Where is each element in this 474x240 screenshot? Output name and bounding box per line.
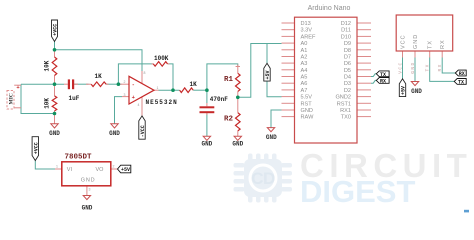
svg-text:D13: D13 [301, 21, 311, 27]
svg-text:TX: TX [380, 72, 386, 78]
svg-text:A0: A0 [301, 41, 308, 47]
svg-text:AREF: AREF [301, 34, 317, 40]
svg-text:TX: TX [428, 40, 434, 49]
svg-text:D6: D6 [344, 61, 351, 67]
svg-text:D3: D3 [344, 81, 351, 87]
svg-text:A7: A7 [301, 88, 308, 94]
svg-text:D9: D9 [344, 41, 351, 47]
svg-text:GND: GND [82, 205, 93, 212]
svg-text:D2: D2 [344, 88, 351, 94]
svg-text:MIC: MIC [9, 93, 15, 104]
svg-text:GND: GND [301, 108, 313, 114]
svg-text:VCC: VCC [397, 61, 403, 73]
svg-text:1: 1 [157, 86, 159, 90]
svg-text:GND: GND [109, 130, 120, 137]
svg-text:GND: GND [201, 141, 212, 148]
svg-text:+5V: +5V [401, 86, 407, 95]
svg-text:1uF: 1uF [69, 95, 80, 102]
svg-text:A5: A5 [301, 75, 308, 81]
svg-text:TX0: TX0 [341, 115, 351, 121]
svg-text:R2: R2 [224, 115, 234, 123]
svg-text:A3: A3 [301, 61, 308, 67]
svg-text:D4: D4 [344, 75, 351, 81]
svg-text:+VCC: +VCC [53, 24, 59, 36]
svg-text:GND: GND [411, 88, 422, 95]
svg-text:5.5V: 5.5V [301, 95, 313, 101]
svg-text:D10: D10 [341, 34, 351, 40]
svg-text:-VCC: -VCC [140, 125, 146, 137]
svg-text:D12: D12 [341, 21, 351, 27]
svg-text:DIGEST: DIGEST [300, 174, 415, 209]
svg-text:NE5532N: NE5532N [146, 99, 178, 106]
svg-text:2: 2 [124, 80, 126, 84]
svg-text:VI: VI [67, 167, 73, 173]
svg-text:TX: TX [425, 63, 431, 71]
svg-text:3: 3 [89, 188, 91, 192]
svg-text:10K: 10K [44, 60, 51, 71]
svg-text:1: 1 [56, 165, 58, 169]
svg-text:2: 2 [113, 165, 115, 169]
svg-text:3: 3 [124, 93, 126, 97]
svg-text:RX: RX [459, 71, 465, 77]
svg-text:VO: VO [96, 167, 105, 173]
svg-text:GND: GND [49, 130, 60, 137]
svg-text:1K: 1K [190, 81, 198, 88]
svg-text:VCC: VCC [401, 34, 407, 49]
svg-text:3.3V: 3.3V [301, 28, 313, 34]
svg-text:4: 4 [138, 103, 140, 107]
svg-text:8: 8 [144, 71, 146, 75]
svg-text:RX: RX [437, 63, 443, 71]
svg-text:D5: D5 [344, 68, 351, 74]
svg-text:RST1: RST1 [337, 101, 351, 107]
svg-text:7805DT: 7805DT [65, 153, 93, 161]
svg-text:1K: 1K [95, 73, 103, 80]
svg-text:A6: A6 [301, 81, 308, 87]
svg-text:GND: GND [413, 34, 419, 49]
svg-text:GND: GND [266, 134, 277, 141]
svg-text:Arduino Nano: Arduino Nano [308, 5, 351, 12]
svg-text:10K: 10K [44, 98, 51, 109]
svg-text:470nF: 470nF [210, 96, 228, 103]
svg-text:100K: 100K [154, 55, 169, 62]
svg-text:GND: GND [81, 178, 96, 184]
svg-text:RX: RX [380, 79, 386, 85]
svg-text:A2: A2 [301, 55, 308, 61]
svg-text:RX: RX [440, 39, 446, 49]
svg-text:RAW: RAW [301, 115, 315, 121]
svg-text:D7: D7 [344, 55, 351, 61]
svg-text:D11: D11 [341, 28, 351, 34]
svg-text:RST: RST [301, 101, 313, 107]
svg-text:GND: GND [410, 61, 416, 73]
svg-text:A1: A1 [301, 48, 308, 54]
svg-text:R1: R1 [224, 76, 234, 84]
svg-text:-: - [132, 81, 135, 88]
svg-text:TX: TX [458, 80, 464, 86]
svg-text:RX1: RX1 [340, 108, 351, 114]
svg-text:A4: A4 [301, 68, 308, 74]
svg-text:+5V: +5V [121, 167, 130, 173]
svg-text:GND: GND [232, 141, 243, 148]
svg-text:CD: CD [251, 169, 275, 188]
svg-text:D8: D8 [344, 48, 351, 54]
svg-text:+VCC: +VCC [33, 142, 39, 154]
svg-text:GND2: GND2 [335, 95, 351, 101]
svg-text:+5V: +5V [265, 70, 271, 79]
